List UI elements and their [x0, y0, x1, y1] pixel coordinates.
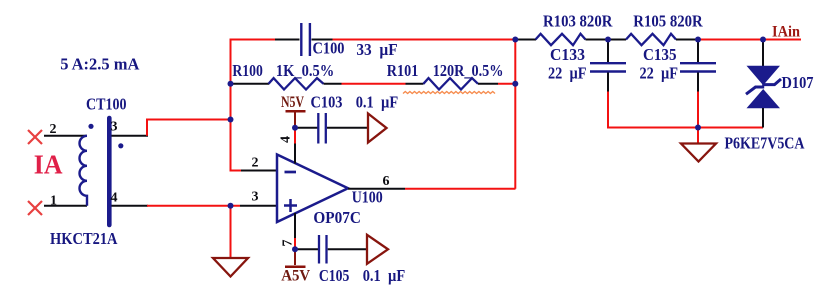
- svg-text:U100: U100: [352, 188, 383, 207]
- svg-text:A5V: A5V: [281, 268, 310, 285]
- node junction C135: [695, 37, 701, 43]
- node junction pin3: [228, 203, 234, 209]
- svg-text:R103 820R: R103 820R: [543, 12, 613, 31]
- node junction top-right of feedback: [512, 37, 518, 43]
- svg-text:C103: C103: [311, 93, 343, 112]
- svg-text:2: 2: [50, 122, 57, 137]
- wire output vertical: [514, 39, 516, 189]
- svg-text:6: 6: [383, 174, 390, 189]
- wire R100 right lead: [324, 83, 342, 85]
- power arrow at C105: [367, 235, 388, 264]
- capacitor C105: [319, 235, 327, 264]
- wire bottom filter line red: [607, 127, 763, 129]
- svg-text:D107: D107: [782, 73, 814, 92]
- node junction ground: [695, 125, 701, 131]
- op-amp plus sign: [284, 199, 297, 212]
- wire C135 bottom red: [697, 92, 699, 129]
- svg-text:22 µF: 22 µF: [640, 64, 679, 83]
- ground symbol at filter: [681, 144, 716, 162]
- wire secondary top black: [112, 135, 149, 137]
- transformer polarity dot secondary: [118, 143, 123, 148]
- svg-text:22 µF: 22 µF: [548, 64, 587, 83]
- resistor R100: [269, 78, 324, 89]
- wire top feedback line right red segment: [333, 39, 516, 41]
- wire C133 bottom red: [607, 92, 609, 129]
- wire pin4 red: [294, 128, 296, 144]
- wire R101 left lead: [406, 83, 424, 85]
- capacitor C133: [590, 63, 626, 71]
- svg-text:3: 3: [111, 120, 118, 135]
- wire inverting node vertical: [230, 39, 232, 171]
- svg-text:4: 4: [279, 136, 294, 143]
- capacitor C100: [301, 23, 310, 56]
- svg-text:R105 820R: R105 820R: [633, 12, 703, 31]
- node junction R101 right: [512, 81, 518, 87]
- wire C100 right lead: [312, 39, 334, 41]
- svg-text:0.1 µF: 0.1 µF: [356, 93, 399, 112]
- svg-text:120R_0.5%: 120R_0.5%: [433, 61, 504, 80]
- op-amp U100: [277, 155, 348, 223]
- resistor R105: [626, 34, 676, 45]
- wire ground stem at pin3: [230, 206, 232, 258]
- wire secondary bottom black: [112, 205, 149, 207]
- svg-text:33 µF: 33 µF: [356, 40, 397, 59]
- wire output stub black: [348, 188, 405, 190]
- node junction C133: [605, 37, 611, 43]
- wire pin2 stub black: [241, 170, 278, 172]
- wire R103 left lead: [515, 39, 536, 41]
- svg-text:C105: C105: [319, 266, 350, 285]
- TVS diode D107: [746, 66, 781, 108]
- op-amp minus sign: [285, 171, 297, 174]
- power port A5V: [281, 250, 310, 285]
- wire pin3 stub black: [240, 205, 278, 207]
- svg-text:1K_0.5%: 1K_0.5%: [276, 61, 334, 80]
- wire C105 left lead: [295, 248, 318, 250]
- wire R105 right lead: [676, 39, 698, 41]
- svg-text:0.1 µF: 0.1 µF: [363, 266, 406, 285]
- node junction D107: [760, 37, 766, 43]
- wire pin7 red: [294, 238, 296, 249]
- resistor R101: [423, 78, 478, 89]
- wire R101 right lead: [478, 83, 498, 85]
- wire pin4 black: [294, 144, 296, 164]
- transformer polarity dot primary: [88, 124, 93, 129]
- wire transformer pin2 lead: [44, 135, 87, 137]
- wire ground stem: [697, 128, 699, 144]
- wire pin2 horizontal red: [230, 170, 242, 172]
- wire between R100 and R101: [342, 83, 406, 85]
- wire C133 bottom lead black: [607, 73, 609, 92]
- capacitor C135: [680, 63, 716, 71]
- node junction inverting at transformer: [228, 117, 234, 123]
- svg-text:3: 3: [252, 190, 259, 205]
- svg-text:IA: IA: [34, 150, 63, 180]
- svg-text:CT100: CT100: [86, 95, 127, 114]
- power port N5V: [281, 94, 306, 126]
- node junction pin4: [292, 125, 298, 131]
- svg-text:IAin: IAin: [772, 24, 800, 41]
- node junction R100 left: [228, 81, 234, 87]
- wire C135 top lead: [697, 40, 699, 63]
- wire C105 right lead: [328, 248, 367, 250]
- svg-text:R100: R100: [232, 61, 262, 80]
- wire top feedback line left red segment: [231, 39, 277, 41]
- wire C100 left lead: [275, 39, 300, 41]
- svg-text:2: 2: [252, 156, 259, 171]
- svg-text:HKCT21A: HKCT21A: [50, 229, 118, 248]
- svg-text:N5V: N5V: [281, 94, 304, 111]
- ground symbol at op-amp: [213, 258, 248, 277]
- no-ERC cross pin1: [28, 201, 42, 215]
- svg-text:4: 4: [111, 191, 118, 206]
- wire R101 right red: [498, 83, 515, 85]
- capacitor C103: [318, 113, 326, 144]
- wire R100 left lead: [231, 83, 270, 85]
- svg-text:5 A:2.5 mA: 5 A:2.5 mA: [60, 54, 139, 73]
- wire D107 bottom lead: [762, 108, 764, 128]
- error squiggle under R101: [403, 92, 495, 94]
- svg-text:P6KE7V5CA: P6KE7V5CA: [725, 134, 805, 153]
- wire output red to vertical: [405, 188, 516, 190]
- svg-text:C133: C133: [550, 45, 585, 64]
- node junction pin7: [292, 246, 298, 252]
- svg-text:C135: C135: [643, 45, 677, 64]
- wire R103 right lead: [586, 39, 627, 41]
- svg-text:C100: C100: [313, 39, 345, 58]
- transformer CT100 primary coil: [80, 136, 88, 206]
- wire C133 top lead: [607, 40, 609, 63]
- wire transformer pin1 lead: [44, 205, 87, 207]
- wire to IAin red: [698, 39, 801, 41]
- resistor R103: [536, 34, 586, 45]
- svg-text:R101: R101: [387, 61, 419, 80]
- wire secondary bottom red: [147, 205, 240, 207]
- wire D107 top lead: [762, 40, 764, 67]
- transformer core bar: [107, 118, 112, 225]
- power arrow at C103: [368, 114, 387, 143]
- svg-text:7: 7: [281, 240, 296, 247]
- wire secondary top red step: [147, 120, 231, 136]
- svg-text:OP07C: OP07C: [313, 208, 361, 227]
- no-ERC cross pin2: [28, 130, 42, 144]
- wire C135 bottom lead black: [697, 73, 699, 92]
- wire C103 left lead: [295, 127, 318, 129]
- wire C103 right lead: [327, 127, 368, 129]
- wire pin7 black: [294, 213, 296, 238]
